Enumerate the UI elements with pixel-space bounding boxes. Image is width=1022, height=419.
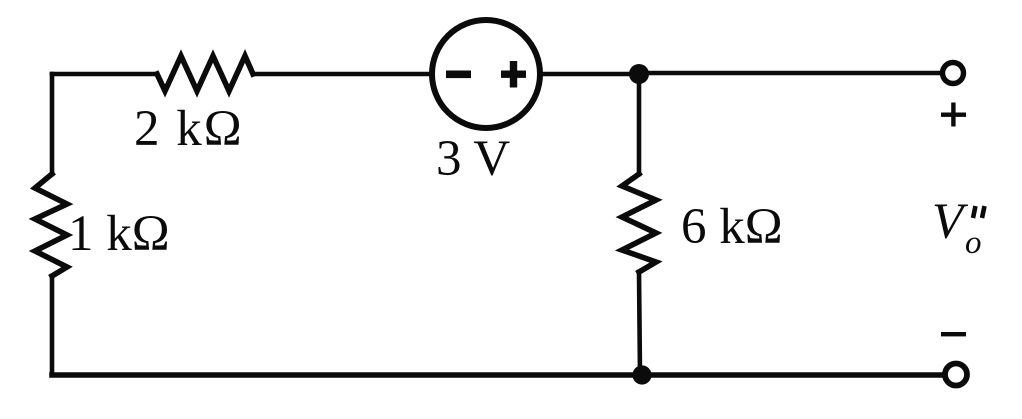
resistor R3 6 kOhm zigzag bbox=[622, 174, 656, 272]
terminal top-right open circle bbox=[943, 63, 964, 84]
label double prime marks bbox=[973, 206, 985, 218]
wire 6k resistor to node B bbox=[639, 272, 640, 375]
node A junction dot bbox=[629, 64, 649, 84]
minus sign inside source bbox=[446, 71, 471, 79]
svg-text:1 kΩ: 1 kΩ bbox=[68, 206, 170, 262]
plus sign inside source bbox=[501, 61, 526, 88]
svg-text:6 kΩ: 6 kΩ bbox=[681, 199, 783, 255]
svg-text:o: o bbox=[965, 225, 982, 261]
label Vo'' output voltage bbox=[932, 194, 985, 261]
voltage source V1 circle bbox=[432, 20, 540, 128]
wire top-left horizontal bbox=[52, 72, 157, 77]
resistor R1 2 kOhm zigzag bbox=[157, 56, 253, 91]
plus polarity mark bbox=[941, 103, 966, 127]
wire node A down to 6k resistor bbox=[637, 74, 642, 174]
terminal bottom-right open circle bbox=[945, 364, 967, 386]
wire node A to top terminal bbox=[639, 71, 940, 76]
wire left vertical upper bbox=[50, 74, 55, 174]
resistor R2 1 kOhm zigzag bbox=[35, 174, 67, 276]
node B junction dot bbox=[632, 365, 651, 384]
svg-text:2 kΩ: 2 kΩ bbox=[134, 101, 244, 157]
svg-text:3 V: 3 V bbox=[436, 131, 510, 187]
wire left vertical lower bbox=[50, 276, 55, 375]
minus polarity mark bbox=[941, 332, 966, 336]
wire bottom horizontal bbox=[52, 372, 942, 378]
svg-text:V: V bbox=[932, 194, 969, 250]
wire resistor to source bbox=[253, 72, 431, 77]
wire source to node A bbox=[541, 72, 639, 77]
